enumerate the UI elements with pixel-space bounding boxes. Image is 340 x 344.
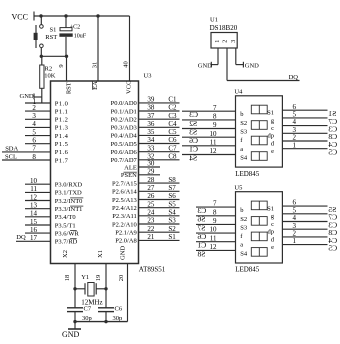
wire <box>34 15 130 17</box>
svg-text:8: 8 <box>213 208 217 216</box>
svg-text:6: 6 <box>32 137 36 145</box>
svg-text:3: 3 <box>32 112 36 120</box>
svg-text:10uF: 10uF <box>74 34 87 40</box>
wire U4 pin 5 <box>282 117 327 119</box>
svg-text:P0.2/AD2: P0.2/AD2 <box>111 117 137 124</box>
wire pin 29 PSEN <box>139 174 161 176</box>
svg-text:dp: dp <box>268 229 275 236</box>
svg-text:VCC: VCC <box>125 81 132 94</box>
svg-text:30p: 30p <box>82 315 92 322</box>
svg-text:27: 27 <box>147 184 155 192</box>
crystal Y1 12MHz <box>75 274 106 306</box>
svg-text:31: 31 <box>91 62 98 69</box>
svg-text:C3: C3 <box>168 112 177 120</box>
svg-text:b: b <box>240 111 243 118</box>
svg-text:30: 30 <box>147 160 155 168</box>
svg-text:P0.6/AD6: P0.6/AD6 <box>111 149 138 156</box>
svg-text:P2.3/A11: P2.3/A11 <box>112 213 137 220</box>
wire <box>97 16 99 81</box>
wire U5 pin 12 <box>196 249 236 251</box>
wire U4 pin 3 <box>282 132 327 134</box>
wire U4 pin 12 <box>182 154 236 156</box>
svg-text:U5: U5 <box>234 184 242 191</box>
svg-text:RST: RST <box>45 34 57 41</box>
wire pin 34 net C6 <box>139 143 180 145</box>
svg-text:P3.2/INT0: P3.2/INT0 <box>55 198 83 205</box>
op-amp U3 AT89S51 box <box>51 81 139 264</box>
svg-text:S2: S2 <box>240 216 247 223</box>
svg-text:35: 35 <box>147 128 155 136</box>
svg-text:GND: GND <box>245 63 259 70</box>
svg-text:S1: S1 <box>267 206 274 213</box>
wire pin 25 net S5 <box>139 207 180 209</box>
svg-text:C7: C7 <box>84 306 92 313</box>
svg-text:P0.4/AD4: P0.4/AD4 <box>111 133 138 140</box>
svg-text:S1: S1 <box>168 233 176 241</box>
svg-text:dp: dp <box>268 133 275 140</box>
wire pin 17 <box>16 240 51 242</box>
svg-text:LED845: LED845 <box>235 266 260 274</box>
svg-text:P0.0/AD0: P0.0/AD0 <box>111 100 137 107</box>
wire pin 33 net C7 <box>139 151 180 153</box>
svg-text:S1: S1 <box>50 26 57 33</box>
svg-text:X2: X2 <box>62 250 69 258</box>
svg-text:LED845: LED845 <box>235 170 260 178</box>
svg-text:P3.3/INT1: P3.3/INT1 <box>55 206 83 213</box>
svg-text:1: 1 <box>215 40 221 43</box>
wire pin 27 net S7 <box>139 190 180 192</box>
svg-text:U4: U4 <box>234 88 243 95</box>
svg-text:X1: X1 <box>97 250 104 258</box>
wire U4 pin 6 <box>282 109 327 111</box>
svg-text:S1: S1 <box>267 110 274 117</box>
svg-text:9: 9 <box>213 121 217 129</box>
svg-text:S4: S4 <box>168 209 176 217</box>
svg-text:12: 12 <box>210 147 218 155</box>
svg-text:C1: C1 <box>197 241 206 250</box>
svg-text:34: 34 <box>147 136 155 144</box>
svg-text:U1: U1 <box>210 16 218 23</box>
svg-text:c: c <box>271 221 274 228</box>
wire U5 pin 4 <box>282 221 327 223</box>
wire U5 pin 9 <box>196 223 236 225</box>
sensor U1 DS18B20 <box>210 16 238 48</box>
svg-text:S5: S5 <box>168 200 176 208</box>
svg-text:8: 8 <box>213 113 217 121</box>
svg-text:S8: S8 <box>197 249 205 258</box>
svg-text:P1.5: P1.5 <box>55 141 69 148</box>
svg-text:b: b <box>240 207 243 214</box>
svg-text:SCL: SCL <box>5 154 17 161</box>
svg-text:15: 15 <box>30 218 38 226</box>
svg-text:C5: C5 <box>328 148 337 157</box>
wire U4 pin 2 <box>282 140 327 142</box>
wire pin 32 net C8 <box>139 159 180 161</box>
wire U5 pin 1 <box>282 244 327 246</box>
svg-text:a: a <box>240 242 243 249</box>
wire pin 7 <box>2 151 51 153</box>
wire pin 35 net C5 <box>139 134 180 136</box>
wire U4 pin 1 <box>282 148 327 150</box>
svg-text:30p: 30p <box>113 315 123 322</box>
svg-text:C1: C1 <box>189 145 198 154</box>
svg-text:7: 7 <box>32 145 36 153</box>
svg-text:P3.1/TXD: P3.1/TXD <box>55 190 82 197</box>
svg-text:P0.7/AD7: P0.7/AD7 <box>111 157 138 164</box>
wire pin 15 <box>25 224 51 226</box>
svg-text:S3: S3 <box>189 127 197 136</box>
wire pin 3 <box>25 118 51 120</box>
wire <box>41 55 66 57</box>
svg-text:C1: C1 <box>168 96 177 104</box>
svg-text:c: c <box>271 125 274 132</box>
svg-text:+C2: +C2 <box>70 25 80 31</box>
svg-text:P1.7: P1.7 <box>55 157 69 164</box>
svg-text:S2: S2 <box>168 225 176 233</box>
wire pin 5 <box>25 135 51 137</box>
svg-text:S3: S3 <box>240 129 247 136</box>
wire pin 39 net C1 <box>139 102 180 104</box>
svg-text:P3.4/T0: P3.4/T0 <box>55 214 76 221</box>
svg-text:SDA: SDA <box>5 146 18 153</box>
svg-text:23: 23 <box>147 217 155 225</box>
svg-text:P0.1/AD1: P0.1/AD1 <box>111 108 137 115</box>
digit segment block 4 <box>251 248 267 257</box>
pin EA <box>92 81 99 90</box>
wire U5 pin 8 <box>196 215 236 217</box>
ground <box>62 322 81 339</box>
svg-text:U3: U3 <box>144 73 152 80</box>
svg-text:8: 8 <box>32 153 36 161</box>
svg-text:14: 14 <box>30 210 38 218</box>
digit segment block 1 <box>251 201 267 210</box>
svg-text:36: 36 <box>147 120 155 128</box>
svg-text:C5: C5 <box>168 128 177 136</box>
svg-text:DQ: DQ <box>16 234 26 241</box>
svg-text:EA: EA <box>92 81 99 90</box>
svg-text:S2: S2 <box>240 120 247 127</box>
svg-text:37: 37 <box>147 112 155 120</box>
svg-text:P2.5/A13: P2.5/A13 <box>112 197 137 204</box>
pin PSEN <box>121 172 137 179</box>
svg-text:20: 20 <box>118 275 125 282</box>
digit segment block 2 <box>251 217 267 226</box>
digit segment block 2 <box>251 121 267 130</box>
wire pin 10 <box>25 183 51 185</box>
svg-text:P1.0: P1.0 <box>55 100 69 107</box>
svg-text:7: 7 <box>213 104 217 112</box>
wire <box>105 264 107 308</box>
svg-text:C3: C3 <box>189 110 198 119</box>
wire U5 pin 6 <box>282 205 327 207</box>
svg-text:38: 38 <box>147 104 155 112</box>
ground <box>20 93 42 100</box>
svg-text:S7: S7 <box>197 223 205 232</box>
svg-text:C6: C6 <box>115 306 123 313</box>
svg-text:S8: S8 <box>168 176 176 184</box>
svg-text:P1.6: P1.6 <box>55 149 69 156</box>
svg-text:ALE: ALE <box>124 164 137 171</box>
svg-text:17: 17 <box>30 234 38 242</box>
svg-text:C6: C6 <box>168 136 177 144</box>
wire pin 26 net S6 <box>139 199 180 201</box>
wire pin 36 net C4 <box>139 126 180 128</box>
svg-text:GND: GND <box>62 330 80 339</box>
wire U5 pin 11 <box>196 241 236 243</box>
digit segment block 3 <box>251 232 267 241</box>
svg-text:1: 1 <box>293 237 297 245</box>
wire pin 38 net C2 <box>139 110 180 112</box>
wire pin 20 <box>127 264 129 322</box>
svg-text:39: 39 <box>147 96 155 104</box>
svg-text:11: 11 <box>30 185 37 193</box>
svg-text:9: 9 <box>58 64 65 67</box>
svg-text:3: 3 <box>231 40 237 43</box>
wire pin 30 ALE <box>139 166 161 168</box>
display U4 LED845 <box>234 88 282 177</box>
svg-text:e: e <box>271 244 274 251</box>
svg-text:C5: C5 <box>328 244 337 253</box>
wire <box>66 56 68 81</box>
svg-text:11: 11 <box>210 234 217 242</box>
digit segment block 1 <box>251 105 267 114</box>
svg-text:5: 5 <box>32 128 36 136</box>
svg-text:S7: S7 <box>168 184 176 192</box>
resistor R2 <box>40 56 56 103</box>
svg-text:a: a <box>240 146 243 153</box>
ground <box>236 62 259 70</box>
wire net DQ <box>226 48 228 81</box>
svg-text:P2.7/A15: P2.7/A15 <box>112 180 137 187</box>
svg-text:P1.2: P1.2 <box>55 117 69 124</box>
wire pin 4 <box>25 126 51 128</box>
svg-text:e: e <box>271 148 274 155</box>
svg-text:C7: C7 <box>168 144 177 152</box>
capacitor C7 <box>67 306 92 322</box>
svg-text:1: 1 <box>293 141 297 149</box>
wire pin 2 <box>25 110 51 112</box>
svg-text:4: 4 <box>32 120 36 128</box>
svg-text:25: 25 <box>147 200 155 208</box>
svg-text:P0.5/AD5: P0.5/AD5 <box>111 141 137 148</box>
wire pin 6 <box>25 143 51 145</box>
digit segment block 3 <box>251 136 267 145</box>
svg-text:10: 10 <box>210 226 218 234</box>
wire U4 pin 4 <box>282 125 327 127</box>
svg-text:DS18B20: DS18B20 <box>210 24 238 32</box>
wire U4 pin 11 <box>182 145 236 147</box>
wire U5 pin 2 <box>282 236 327 238</box>
svg-text:21: 21 <box>147 233 155 241</box>
svg-text:S3: S3 <box>240 224 247 231</box>
svg-text:P1.3: P1.3 <box>55 125 69 132</box>
wire pin 24 net S4 <box>139 215 180 217</box>
wire U5 pin 10 <box>196 232 236 234</box>
switch S1 <box>34 16 58 56</box>
svg-text:R2: R2 <box>45 65 53 72</box>
svg-text:24: 24 <box>147 209 155 217</box>
svg-text:40: 40 <box>122 61 129 68</box>
svg-text:12: 12 <box>210 243 218 251</box>
svg-text:10K: 10K <box>44 73 56 80</box>
svg-text:P2.0/A8: P2.0/A8 <box>115 238 137 245</box>
svg-text:P2.2/A10: P2.2/A10 <box>112 221 137 228</box>
svg-text:29: 29 <box>147 168 155 176</box>
svg-text:26: 26 <box>147 192 155 200</box>
wire pin 1 <box>25 102 51 104</box>
wire U4 pin 8 <box>182 119 236 121</box>
svg-text:C2: C2 <box>168 104 177 112</box>
svg-text:28: 28 <box>147 176 155 184</box>
svg-text:P2.1/A9: P2.1/A9 <box>115 230 137 237</box>
svg-text:C8: C8 <box>168 153 177 161</box>
svg-text:AT89S51: AT89S51 <box>139 266 166 274</box>
svg-text:13: 13 <box>30 202 38 210</box>
svg-text:DQ: DQ <box>289 74 299 81</box>
svg-text:19: 19 <box>95 275 102 282</box>
svg-text:P1.4: P1.4 <box>55 133 69 140</box>
svg-text:C4: C4 <box>168 120 177 128</box>
wire <box>74 264 76 308</box>
svg-text:C3: C3 <box>197 206 206 215</box>
wire pin 22 net S2 <box>139 231 180 233</box>
svg-text:P3.7/RD: P3.7/RD <box>55 239 78 246</box>
digit segment block 4 <box>251 152 267 161</box>
svg-text:2: 2 <box>223 40 229 43</box>
ground <box>198 62 218 70</box>
svg-text:10: 10 <box>30 177 38 185</box>
wire <box>75 321 128 323</box>
wire U4 pin 7 <box>182 110 236 112</box>
svg-text:P3.5/T1: P3.5/T1 <box>55 222 76 229</box>
capacitor C2 <box>59 16 86 56</box>
display U5 LED845 <box>234 184 282 273</box>
wire U5 pin 3 <box>282 228 327 230</box>
wire U4 pin 9 <box>182 128 236 130</box>
svg-text:P2.4/A12: P2.4/A12 <box>112 205 137 212</box>
svg-text:S4: S4 <box>240 155 248 162</box>
svg-text:33: 33 <box>147 144 155 152</box>
svg-text:VCC: VCC <box>12 13 28 22</box>
wire pin 23 net S3 <box>139 223 180 225</box>
svg-text:Y1: Y1 <box>81 274 89 281</box>
svg-text:PSEN: PSEN <box>121 172 137 179</box>
wire pin 21 net S1 <box>139 239 180 241</box>
svg-text:2: 2 <box>32 104 36 112</box>
wire U5 pin 7 <box>196 206 236 208</box>
svg-text:P3.6/WR: P3.6/WR <box>55 230 80 237</box>
wire pin 13 <box>25 208 51 210</box>
wire pin 8 <box>2 159 51 161</box>
wire pin 28 net S8 <box>139 182 180 184</box>
wire U4 pin 10 <box>182 136 236 138</box>
wire U5 pin 5 <box>282 213 327 215</box>
wire pin 14 <box>25 216 51 218</box>
svg-text:S4: S4 <box>189 153 197 162</box>
svg-text:22: 22 <box>147 225 155 233</box>
wire pin 37 net C3 <box>139 118 180 120</box>
svg-text:18: 18 <box>64 275 71 282</box>
svg-text:S3: S3 <box>168 217 176 225</box>
svg-text:P1.1: P1.1 <box>55 108 69 115</box>
svg-text:9: 9 <box>213 217 217 225</box>
svg-text:GND: GND <box>198 63 212 70</box>
svg-text:P0.3/AD3: P0.3/AD3 <box>111 125 137 132</box>
wire <box>217 48 219 65</box>
wire pin 16 <box>25 232 51 234</box>
capacitor C6 <box>98 306 123 322</box>
svg-text:P3.0/RXD: P3.0/RXD <box>55 182 83 189</box>
wire pin 12 <box>25 200 51 202</box>
svg-text:RST: RST <box>65 82 72 94</box>
svg-text:10: 10 <box>210 130 218 138</box>
svg-text:16: 16 <box>30 226 38 234</box>
wire pin 11 <box>25 191 51 193</box>
svg-text:12: 12 <box>30 193 38 201</box>
svg-text:P2.6/A14: P2.6/A14 <box>112 189 137 196</box>
svg-text:GND: GND <box>120 246 127 260</box>
svg-text:7: 7 <box>213 200 217 208</box>
wire <box>129 16 131 81</box>
svg-text:S6: S6 <box>168 192 176 200</box>
svg-text:11: 11 <box>210 138 217 146</box>
wire <box>235 48 237 65</box>
svg-text:S4: S4 <box>240 250 248 257</box>
